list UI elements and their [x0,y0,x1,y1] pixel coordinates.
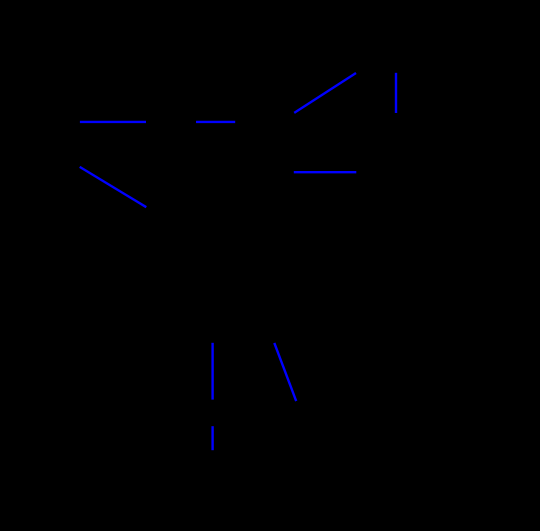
svg-text:R3: R3 [366,47,382,61]
wire A (node N1 to R2 left pin) [80,121,146,123]
ground [202,451,224,460]
wire D (R3 right pin down to L1 top pin) [395,73,397,113]
node N2 junction dot [291,110,297,116]
svg-text:R1: R1 [52,138,68,152]
resistor R1 [74,122,86,167]
terminal T1 [294,401,301,408]
resistor R3 [356,67,396,79]
wire E (R5 bottom pin to R4 left pin) [294,171,357,173]
wire F (R1 bottom pin to V3 top lead) [80,167,147,207]
svg-text:L1: L1 [404,136,418,150]
source V3 [146,207,199,295]
svg-text:V3: V3 [144,269,159,283]
wire B (R2 right pin to V1 left pin) [196,121,235,123]
resistor R2 [145,116,196,128]
wire I (L2 right pin to terminal T1) [274,343,296,401]
resistor R4 [356,166,396,178]
inductor L2 [213,338,275,343]
svg-text:L2: L2 [232,320,246,334]
source V1 [235,97,294,137]
svg-text:R4: R4 [364,185,380,199]
wire G (node N3 down to C1 top pin) [211,343,213,400]
node N3 junction dot [210,340,216,346]
wire (black) from V3 bottom lead to node N3 [188,293,213,343]
svg-text:C1: C1 [225,406,241,420]
wire H (C1 bottom pin to ground) [211,426,213,450]
resistor R5 [288,113,300,172]
svg-text:V1: V1 [256,79,271,93]
wire C (node N2 to R3 left pin) [294,73,356,113]
svg-text:R2: R2 [162,97,178,111]
svg-text:R5: R5 [266,136,282,150]
inductor L1 [390,113,396,173]
capacitor C1 [203,399,222,426]
